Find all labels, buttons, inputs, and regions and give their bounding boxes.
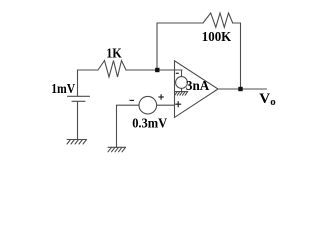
svg-text:o: o (270, 96, 276, 108)
wire feedback right down to output (233, 23, 241, 89)
minus sign left of 0.3mV source (130, 99, 135, 101)
wire stub minus input to bias source (181, 70, 183, 77)
svg-text:1mV: 1mV (51, 82, 75, 97)
junction node at output / feedback (238, 87, 242, 91)
svg-text:100K: 100K (202, 30, 232, 45)
battery V1 plates (68, 96, 90, 101)
wire source right to op-amp plus input (157, 104, 175, 106)
plus sign right of 0.3mV source (158, 94, 163, 99)
current source IB 3nA circle (176, 77, 188, 89)
svg-text:0.3mV: 0.3mV (132, 117, 167, 132)
wire battery top to 1K (78, 70, 99, 96)
resistor R1 1K (98, 61, 126, 78)
ground under battery (67, 140, 87, 145)
wire stub bias source to internal ground (181, 88, 183, 91)
wire source left to ground (117, 105, 140, 147)
op-amp U1 triangle (175, 61, 219, 118)
internal ground in op-amp (175, 92, 188, 96)
svg-text:1K: 1K (106, 47, 122, 62)
minus sign inside op-amp (176, 72, 179, 74)
svg-text:3nA: 3nA (186, 79, 210, 94)
label Vo (259, 91, 276, 108)
wire feedback left vertical and top (157, 23, 203, 70)
wire battery bottom to ground (77, 101, 79, 139)
resistor R2 100K (203, 13, 233, 27)
wire op-amp output to Vo (218, 88, 267, 90)
junction node at 1K / feedback (155, 68, 159, 72)
wire 1K to op-amp minus input (126, 69, 182, 71)
plus sign inside op-amp (175, 101, 181, 107)
svg-text:V: V (259, 91, 270, 107)
source V2 0.3mV circle (139, 96, 157, 114)
ground under 0.3mV source (108, 147, 126, 152)
